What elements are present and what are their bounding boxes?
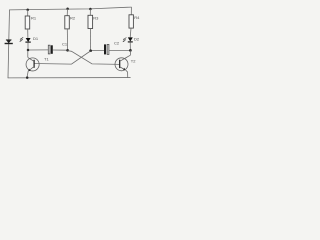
node dot: D1 column junction (27, 49, 30, 52)
resistor R2 (65, 9, 76, 50)
wire: C2 to D2 column junction (109, 49, 130, 51)
node dot: rail junction at R1 (26, 8, 29, 11)
battery/diode symbol on left supply wire (5, 40, 13, 44)
capacitor C1 (48, 42, 68, 54)
wire: cross-coupling diagonal node B to T1 base (34, 51, 90, 64)
wire: bottom return rail (8, 77, 130, 79)
svg-text:R4: R4 (134, 15, 140, 20)
node dot: T1 emitter on bottom rail (26, 76, 29, 79)
wire: left border (supply down-lead) (8, 10, 10, 78)
LED D1 (19, 36, 39, 49)
node dot: D2 column junction (129, 49, 132, 52)
wire: node B to C2 (91, 49, 104, 51)
background paper (0, 0, 150, 84)
node A dot (R2/C1/cross-wire) (66, 49, 69, 52)
svg-text:R3: R3 (93, 15, 99, 20)
transistor T1 (26, 51, 49, 78)
svg-text:D2: D2 (134, 37, 140, 42)
svg-text:C2: C2 (114, 41, 120, 46)
wire: D1 node to C1 (28, 49, 48, 51)
svg-text:C1: C1 (62, 42, 68, 47)
transistor T2 (115, 51, 136, 78)
wire: cross-coupling diagonal node A to T2 base (68, 51, 120, 65)
node dot: rail junction at R2 (66, 8, 69, 11)
svg-text:T2: T2 (131, 59, 136, 64)
svg-text:R2: R2 (70, 16, 76, 21)
resistor R4 (129, 7, 140, 37)
capacitor C2 (104, 41, 120, 55)
svg-text:D1: D1 (33, 36, 39, 41)
resistor R3 (88, 9, 99, 50)
LED D2 (123, 37, 140, 50)
node B dot (R3/C2/cross-wire) (89, 49, 92, 52)
resistor R1 (25, 10, 37, 38)
wire: top supply rail (10, 7, 132, 10)
svg-text:R1: R1 (31, 15, 37, 20)
node dot: rail junction at R3 (89, 8, 92, 11)
svg-text:T1: T1 (44, 56, 49, 61)
wire: C1 to node A (53, 49, 68, 51)
